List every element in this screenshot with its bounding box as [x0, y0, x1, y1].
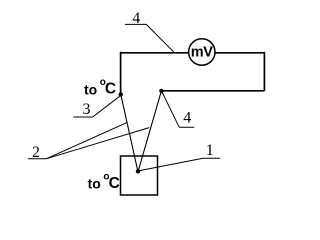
node B (reference junction right, dot) — [159, 89, 163, 93]
pointer from 2 to left thermocouple wire — [47, 122, 128, 158]
wire: left vertical from top corner down to node A — [120, 52, 122, 95]
svg-text:3: 3 — [83, 101, 91, 118]
pointer from 2 to right thermocouple wire — [47, 128, 150, 159]
wire: thermocouple leg from node A to hot junction — [121, 95, 138, 172]
wire: top horizontal from left corner to mV meter and on to right corner — [121, 52, 265, 54]
meter mV (millivoltmeter) — [189, 39, 215, 65]
svg-text:C: C — [109, 175, 120, 192]
wire: thermocouple leg from node B to hot junction — [138, 91, 161, 171]
svg-text:to: to — [84, 82, 97, 98]
wire: bottom horizontal from right corner to node B — [161, 90, 264, 92]
svg-text:mV: mV — [191, 45, 213, 61]
wire: right vertical — [263, 52, 265, 91]
svg-text:to: to — [88, 176, 101, 192]
node A (reference junction left, dot) — [119, 92, 123, 96]
svg-text:C: C — [105, 80, 116, 97]
svg-text:1: 1 — [206, 142, 214, 159]
measuring junction box — [121, 156, 158, 195]
svg-text:4: 4 — [183, 110, 191, 127]
hot junction node (dot in box) — [136, 169, 140, 173]
